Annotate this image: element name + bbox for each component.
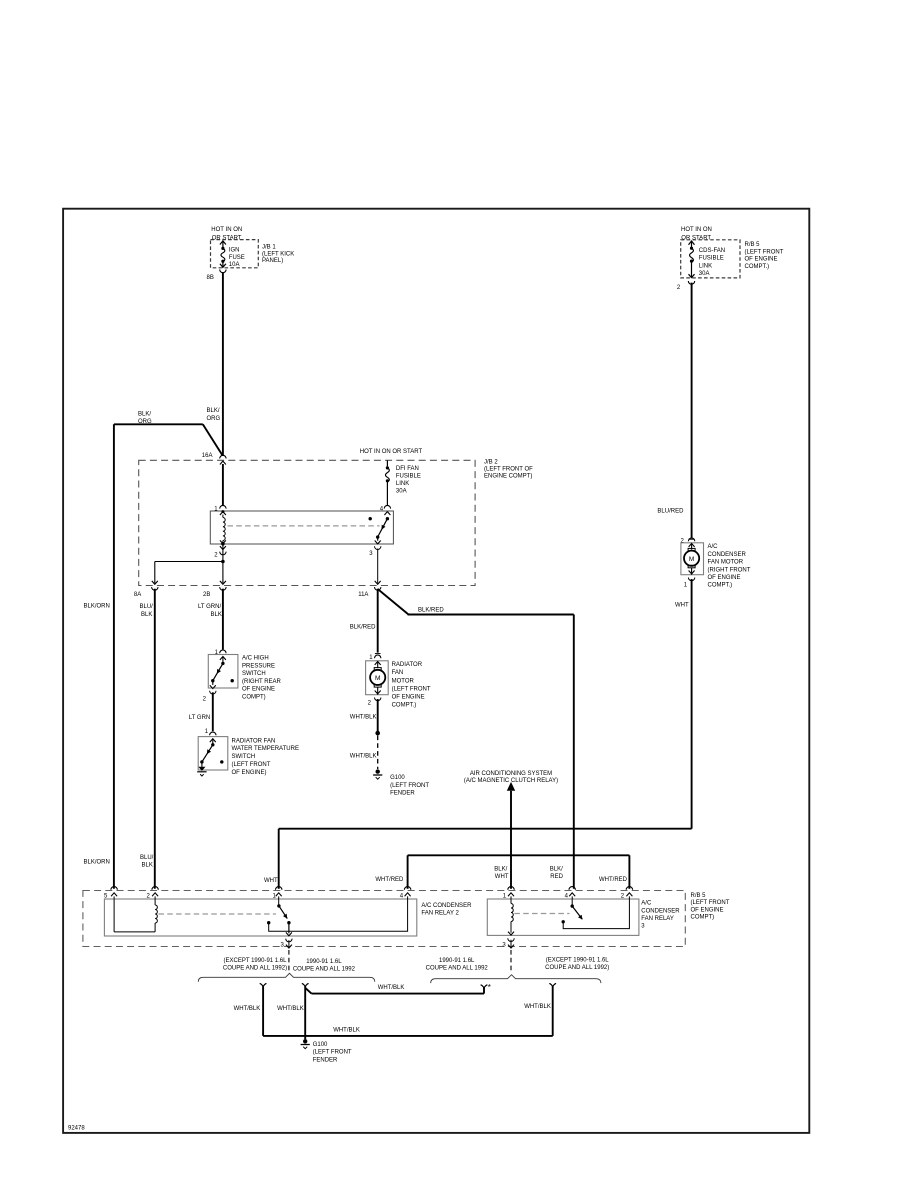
svg-text:CDS-FAN: CDS-FAN	[699, 248, 725, 254]
svg-text:3: 3	[641, 924, 645, 930]
relay 2 linkage dashed	[159, 913, 277, 915]
svg-text:WHT: WHT	[495, 874, 509, 880]
ground at water temp switch	[197, 767, 206, 776]
svg-text:HOT IN ON OR START: HOT IN ON OR START	[360, 449, 423, 455]
svg-text:WHT/RED: WHT/RED	[375, 877, 404, 883]
svg-text:BLU/RED: BLU/RED	[657, 509, 684, 515]
svg-text:OF ENGINE: OF ENGINE	[691, 907, 724, 913]
component label R/B 5 (LEFT FRONT OF ENGINE COMPT.)	[745, 242, 784, 270]
svg-text:HOT IN ON: HOT IN ON	[211, 227, 242, 233]
svg-text:COUPE AND ALL 1992): COUPE AND ALL 1992)	[223, 966, 287, 972]
component label A/C CONDENSER FAN RELAY 3	[641, 901, 680, 930]
svg-text:(LEFT FRONT: (LEFT FRONT	[313, 1050, 352, 1056]
svg-text:LINK: LINK	[396, 481, 409, 487]
svg-text:BLK/: BLK/	[494, 866, 507, 872]
svg-text:FAN MOTOR: FAN MOTOR	[708, 560, 744, 566]
net label HOT IN ON OR START (R/B 5)	[681, 227, 712, 242]
relay A/C condenser fan relay 2 box	[104, 899, 416, 936]
wire label BLU/BLK (bottom)	[140, 855, 154, 869]
wire label BLK/RED (bottom)	[550, 866, 564, 880]
ground label G100 (LEFT FRONT FENDER	[313, 1042, 352, 1064]
component label A/C CONDENSER FAN RELAY 2	[421, 903, 472, 917]
svg-text:BLU/: BLU/	[140, 604, 154, 610]
svg-text:RED: RED	[550, 874, 563, 880]
svg-text:2: 2	[203, 697, 207, 703]
svg-text:MOTOR: MOTOR	[392, 678, 415, 684]
wire WHT/BLK left drop	[262, 986, 264, 1036]
relay 2 fixed contact to pin 4	[267, 896, 408, 931]
net label AIR CONDITIONING SYSTEM (A/C MAGNETIC CLUTCH RELAY)	[464, 771, 558, 784]
wire BLU/RED to condenser fan motor	[691, 283, 693, 539]
wire BLK/RED 11A down to radiator fan motor	[377, 589, 379, 653]
option text (EXCEPT 1990-91 1.6L COUPE AND ALL 1992) left	[223, 958, 287, 972]
svg-text:BLK/ORN: BLK/ORN	[84, 604, 110, 610]
svg-text:COMPT): COMPT)	[242, 695, 266, 701]
connector below radiator fan motor	[375, 698, 381, 701]
svg-text:G100: G100	[313, 1042, 328, 1048]
svg-text:COMPT.): COMPT.)	[745, 264, 770, 270]
svg-text:COUPE AND ALL 1992: COUPE AND ALL 1992	[293, 967, 356, 973]
dashed wire to G100	[377, 736, 379, 770]
svg-text:1: 1	[369, 655, 373, 661]
svg-text:2: 2	[677, 285, 681, 291]
svg-text:1990-91 1.6L: 1990-91 1.6L	[439, 958, 475, 964]
connector below condenser fan motor	[688, 578, 694, 581]
connector arrow center WHT/BLK drop	[302, 983, 309, 986]
svg-text:COMPT.): COMPT.)	[708, 583, 733, 589]
component label RADIATOR FAN MOTOR (LEFT FRONT OF ENGINE COMPT.)	[392, 662, 431, 709]
connector at condenser fan motor pin 2	[688, 538, 694, 541]
arrow to air conditioning system	[507, 782, 515, 791]
relay 2 coil	[114, 896, 157, 932]
svg-text:(LEFT FRONT: (LEFT FRONT	[691, 900, 730, 906]
svg-text:92478: 92478	[68, 1126, 85, 1132]
svg-text:1: 1	[215, 650, 219, 656]
bracket A (relay 2 options)	[198, 973, 374, 981]
wire BLK/RED horizontal run	[408, 614, 574, 616]
svg-text:IGN: IGN	[229, 248, 240, 254]
svg-text:(EXCEPT 1990-91 1.6L: (EXCEPT 1990-91 1.6L	[546, 957, 610, 963]
wire WHT/BLK center drop to ground	[304, 986, 306, 1039]
svg-text:16A: 16A	[202, 453, 213, 459]
dashed stub relay 3 pin 3 to bracket	[510, 950, 512, 973]
svg-text:3: 3	[502, 942, 506, 948]
svg-text:G100: G100	[390, 775, 405, 781]
connector arrow left WHT/BLK drop	[260, 983, 267, 986]
motor A/C condenser fan motor	[681, 543, 704, 575]
wire branch to 8A	[155, 562, 223, 584]
wire label BLU/BLK	[140, 604, 154, 618]
svg-text:J/B 1: J/B 1	[262, 245, 276, 251]
ground G100 (radiator fan)	[373, 769, 382, 779]
connector below relay 3 pin 3	[508, 938, 514, 948]
motor radiator fan motor	[366, 661, 389, 695]
connector at relay 2 pin 4	[404, 887, 410, 897]
wire WHT down to relay 2 pin 1	[278, 829, 280, 889]
wire BLK/ORG branch horizontal	[114, 423, 203, 425]
wire WHT condenser motor down	[691, 579, 693, 829]
switch A/C high pressure switch	[208, 655, 238, 689]
wire 16A to relay pin 1	[222, 464, 224, 505]
relay 3 linkage dashed	[514, 913, 569, 915]
wire BLK/RED right vertical to relay 3 pin 4	[573, 615, 575, 889]
wire pin 3 to 11A	[377, 549, 379, 584]
wire label LT GRN/BLK	[198, 604, 222, 618]
wire WHT/BLK motor to junction	[377, 699, 379, 733]
svg-text:(LEFT FRONT: (LEFT FRONT	[232, 762, 271, 768]
svg-text:OF ENGINE): OF ENGINE)	[232, 770, 267, 776]
svg-text:OF ENGINE: OF ENGINE	[392, 695, 425, 701]
wire BLK/RED diagonal branch	[378, 589, 409, 615]
wire BLK/ORN left vertical run	[113, 424, 115, 889]
relay switch (J/B 2 relay)	[369, 517, 390, 544]
svg-text:A/C HIGH: A/C HIGH	[242, 656, 269, 662]
fuse value label IGN FUSE 10A	[229, 248, 245, 269]
svg-text:(LEFT FRONT OF: (LEFT FRONT OF	[484, 467, 533, 473]
junction block J/B 2 dashed box	[139, 460, 475, 585]
svg-text:WHT: WHT	[264, 878, 278, 884]
connector cups below J/B 2	[152, 587, 381, 590]
svg-text:OF ENGINE: OF ENGINE	[745, 257, 778, 263]
svg-text:OF ENGINE: OF ENGINE	[708, 575, 741, 581]
svg-text:RADIATOR FAN: RADIATOR FAN	[232, 738, 276, 744]
svg-text:BLK/: BLK/	[138, 412, 151, 418]
svg-text:A/C CONDENSER: A/C CONDENSER	[421, 903, 472, 909]
connector below pressure switch	[210, 691, 216, 694]
svg-text:HOT IN ON: HOT IN ON	[681, 227, 712, 233]
svg-text:A/C: A/C	[708, 544, 719, 550]
svg-text:ORG: ORG	[207, 416, 221, 422]
svg-text:BLK: BLK	[211, 612, 222, 618]
connector at relay 3 pin 4	[569, 887, 575, 897]
option text 1990-91 1.6L COUPE AND ALL 1992 left	[293, 959, 356, 973]
svg-text:COMPT): COMPT)	[691, 915, 715, 921]
svg-text:BLK: BLK	[142, 863, 153, 869]
wire label BLK/WHT	[494, 866, 508, 880]
connector at relay 3 pin 2	[626, 887, 632, 897]
component label J/B 2 (LEFT FRONT OF ENGINE COMPT)	[484, 460, 533, 480]
wire BLK/WHT to relay 3 pin 1	[510, 791, 512, 889]
svg-text:A/C: A/C	[641, 901, 652, 907]
connector at relay 3 pin 1	[508, 887, 514, 897]
wire LT GRN/BLK 2B to pressure switch	[222, 589, 224, 650]
svg-text:BLK: BLK	[141, 612, 152, 618]
relay 3 fixed contact to pin 2	[562, 896, 630, 928]
svg-text:8B: 8B	[207, 275, 214, 281]
relay A/C condenser fan relay 3 box	[487, 899, 639, 935]
svg-text:WHT/BLK: WHT/BLK	[333, 1027, 360, 1033]
svg-text:30A: 30A	[699, 271, 710, 277]
connector at pressure switch pin 1	[220, 650, 226, 653]
connector at relay 2 pin 1	[276, 887, 282, 897]
value label CDS-FAN FUSIBLE LINK 30A	[699, 248, 725, 277]
wire label BLK/ORG (left branch)	[138, 412, 152, 426]
svg-text:FAN: FAN	[392, 670, 404, 676]
connector arrow at cross link end	[481, 985, 488, 988]
svg-text:OR START: OR START	[212, 235, 242, 241]
connector at radiator fan motor pin 1	[375, 654, 381, 659]
option text 1990-91 1.6L COUPE AND ALL 1992 right	[426, 958, 489, 972]
connector at 16A	[220, 455, 226, 464]
svg-text:30A: 30A	[396, 488, 407, 494]
svg-text:COMPT.): COMPT.)	[392, 703, 417, 709]
dashed stub relay 2 pin 3 to bracket	[288, 950, 290, 972]
svg-text:*: *	[488, 983, 491, 992]
svg-text:BLK/ORN: BLK/ORN	[84, 859, 110, 865]
connector arrow right WHT/BLK drop	[549, 983, 556, 986]
switch radiator fan water temperature switch	[198, 737, 228, 770]
fusible link DFI FAN 30A	[385, 460, 389, 505]
junction block J/B 1 dashed box	[211, 240, 259, 268]
svg-text:(RIGHT REAR: (RIGHT REAR	[242, 679, 282, 685]
connector at pin 1	[220, 505, 226, 515]
svg-text:FAN RELAY: FAN RELAY	[641, 916, 674, 922]
relay box R/B 5 top dashed box	[681, 240, 740, 278]
connector below pin 2	[220, 546, 226, 555]
svg-text:1990-91 1.6L: 1990-91 1.6L	[306, 959, 342, 965]
svg-text:WHT/RED: WHT/RED	[599, 877, 628, 883]
component label A/C HIGH PRESSURE SWITCH (RIGHT REAR OF ENGINE COMPT)	[242, 656, 282, 701]
svg-text:(LEFT FRONT: (LEFT FRONT	[390, 783, 429, 789]
svg-text:FENDER: FENDER	[390, 791, 415, 797]
svg-text:OR START: OR START	[681, 235, 711, 241]
svg-text:BLK/RED: BLK/RED	[350, 625, 376, 631]
svg-text:COUPE AND ALL 1992: COUPE AND ALL 1992	[426, 966, 489, 972]
connector at 8B	[220, 270, 226, 273]
svg-text:2: 2	[214, 552, 218, 558]
svg-text:(LEFT KICK: (LEFT KICK	[262, 251, 294, 257]
wire WHT/BLK right drop	[552, 986, 554, 1036]
relay coil (J/B 2 relay)	[220, 510, 226, 545]
svg-text:J/B 2: J/B 2	[484, 460, 498, 466]
connector at pin 4	[384, 505, 390, 515]
svg-text:(EXCEPT 1990-91 1.6L: (EXCEPT 1990-91 1.6L	[224, 958, 288, 964]
svg-text:WHT/BLK: WHT/BLK	[234, 1006, 261, 1012]
connector at relay 2 pin 2	[152, 887, 158, 897]
connector below fusible link	[688, 281, 694, 284]
bracket B (relay 3 options)	[431, 975, 601, 983]
svg-text:SWITCH: SWITCH	[232, 754, 256, 760]
svg-text:1: 1	[684, 582, 688, 588]
svg-text:WHT/BLK: WHT/BLK	[524, 1004, 551, 1010]
fuse IGN FUSE 10A	[220, 241, 226, 267]
svg-text:8A: 8A	[134, 592, 141, 598]
relay linkage dashed (J/B 2 relay)	[228, 525, 380, 527]
junction node	[221, 560, 225, 564]
svg-text:WHT: WHT	[675, 603, 689, 609]
svg-text:DFI FAN: DFI FAN	[396, 466, 419, 472]
net label HOT IN ON OR START (J/B 1)	[211, 227, 242, 242]
wire BLU/BLK 8A to relay 2 pin 2	[154, 589, 156, 889]
svg-text:AIR CONDITIONING SYSTEM: AIR CONDITIONING SYSTEM	[470, 771, 552, 777]
diagram border frame	[63, 209, 809, 1133]
svg-text:WHT/BLK: WHT/BLK	[350, 754, 377, 760]
component label A/C CONDENSER FAN MOTOR (RIGHT FRONT OF ENGINE COMPT.)	[708, 544, 751, 589]
connector at relay 2 pin 5	[111, 887, 117, 897]
wire LT GRN to water temp switch	[212, 692, 214, 731]
svg-text:R/B 5: R/B 5	[691, 893, 707, 899]
svg-text:M: M	[689, 556, 694, 563]
svg-text:FUSIBLE: FUSIBLE	[396, 473, 421, 479]
component label RADIATOR FAN WATER TEMPERATURE SWITCH (LEFT FRONT OF ENGINE)	[232, 738, 299, 776]
svg-text:FENDER: FENDER	[313, 1058, 338, 1064]
svg-text:(LEFT FRONT: (LEFT FRONT	[745, 249, 784, 255]
svg-text:BLK/RED: BLK/RED	[418, 607, 444, 613]
svg-text:LT GRN/: LT GRN/	[198, 604, 221, 610]
relay 3 switch	[571, 896, 583, 919]
relay box R/B 5 bottom dashed box	[83, 891, 685, 947]
wire WHT horizontal run	[279, 828, 692, 830]
svg-text:M: M	[375, 675, 380, 682]
wire BLK/ORG from 8B to 16A	[222, 272, 224, 456]
svg-text:11A: 11A	[358, 592, 368, 598]
svg-text:10A: 10A	[229, 262, 240, 268]
svg-text:CONDENSER: CONDENSER	[708, 552, 747, 558]
svg-text:2B: 2B	[203, 592, 210, 598]
svg-text:BLU/: BLU/	[140, 855, 154, 861]
svg-text:OF ENGINE: OF ENGINE	[242, 687, 275, 693]
svg-text:FUSE: FUSE	[229, 255, 245, 261]
svg-text:FAN RELAY 2: FAN RELAY 2	[421, 911, 459, 917]
svg-text:PANEL): PANEL)	[262, 258, 283, 264]
relay 3 coil	[508, 896, 514, 935]
wire WHT/RED between relay 2 pin 4 and relay 3 pin 2	[408, 855, 630, 889]
ground label G100 (LEFT FRONT FENDER	[390, 775, 429, 797]
wire label BLK/ORG (right)	[207, 408, 221, 422]
svg-text:ENGINE COMPT): ENGINE COMPT)	[484, 474, 532, 480]
svg-text:3: 3	[369, 551, 373, 557]
svg-text:PRESSURE: PRESSURE	[242, 663, 275, 669]
svg-text:COUPE AND ALL 1992): COUPE AND ALL 1992)	[545, 965, 609, 971]
svg-text:LINK: LINK	[699, 263, 712, 269]
svg-text:WHT/BLK: WHT/BLK	[350, 715, 377, 721]
svg-text:FUSIBLE: FUSIBLE	[699, 256, 724, 262]
relay 2 switch	[277, 896, 292, 935]
wire WHT/BLK bottom run	[263, 1035, 553, 1037]
svg-text:LT GRN: LT GRN	[189, 715, 210, 721]
wire pin 2 down with junction	[222, 544, 224, 583]
exit arrows at J/B 2 bottom	[152, 581, 381, 584]
connector below relay 2 pin 3	[286, 939, 292, 948]
svg-text:1: 1	[205, 729, 209, 735]
svg-text:WATER TEMPERATURE: WATER TEMPERATURE	[232, 746, 299, 752]
svg-text:(LEFT FRONT: (LEFT FRONT	[392, 686, 431, 692]
svg-text:BLK/: BLK/	[207, 408, 220, 414]
svg-text:CONDENSER: CONDENSER	[641, 908, 680, 914]
component label J/B 1 (LEFT KICK PANEL)	[262, 245, 294, 264]
junction node WHT/BLK	[375, 731, 380, 736]
component label R/B 5 (LEFT FRONT OF ENGINE COMPT)	[691, 893, 730, 921]
connector at water temp switch pin 1	[210, 732, 216, 735]
connector below pin 3	[375, 546, 381, 549]
svg-text:WHT/BLK: WHT/BLK	[277, 1006, 304, 1012]
svg-text:2: 2	[368, 700, 372, 706]
svg-text:WHT/BLK: WHT/BLK	[378, 985, 405, 991]
svg-text:BLK/: BLK/	[550, 866, 563, 872]
svg-text:(RIGHT FRONT: (RIGHT FRONT	[708, 567, 751, 573]
relay box inside J/B 2	[210, 511, 393, 544]
value label DFI FAN FUSIBLE LINK 30A	[396, 466, 421, 495]
wire WHT/BLK cross link	[305, 987, 484, 993]
ground G100 (bottom)	[301, 1039, 310, 1049]
fusible link CDS-FAN 30A	[689, 241, 695, 278]
svg-text:3: 3	[281, 942, 285, 948]
svg-text:RADIATOR: RADIATOR	[392, 662, 423, 668]
svg-text:R/B 5: R/B 5	[745, 242, 761, 248]
svg-text:SWITCH: SWITCH	[242, 671, 266, 677]
option text (EXCEPT 1990-91 1.6L COUPE AND ALL 1992) right	[545, 957, 609, 971]
wire BLK/ORG branch diagonal to 16A	[203, 424, 223, 455]
